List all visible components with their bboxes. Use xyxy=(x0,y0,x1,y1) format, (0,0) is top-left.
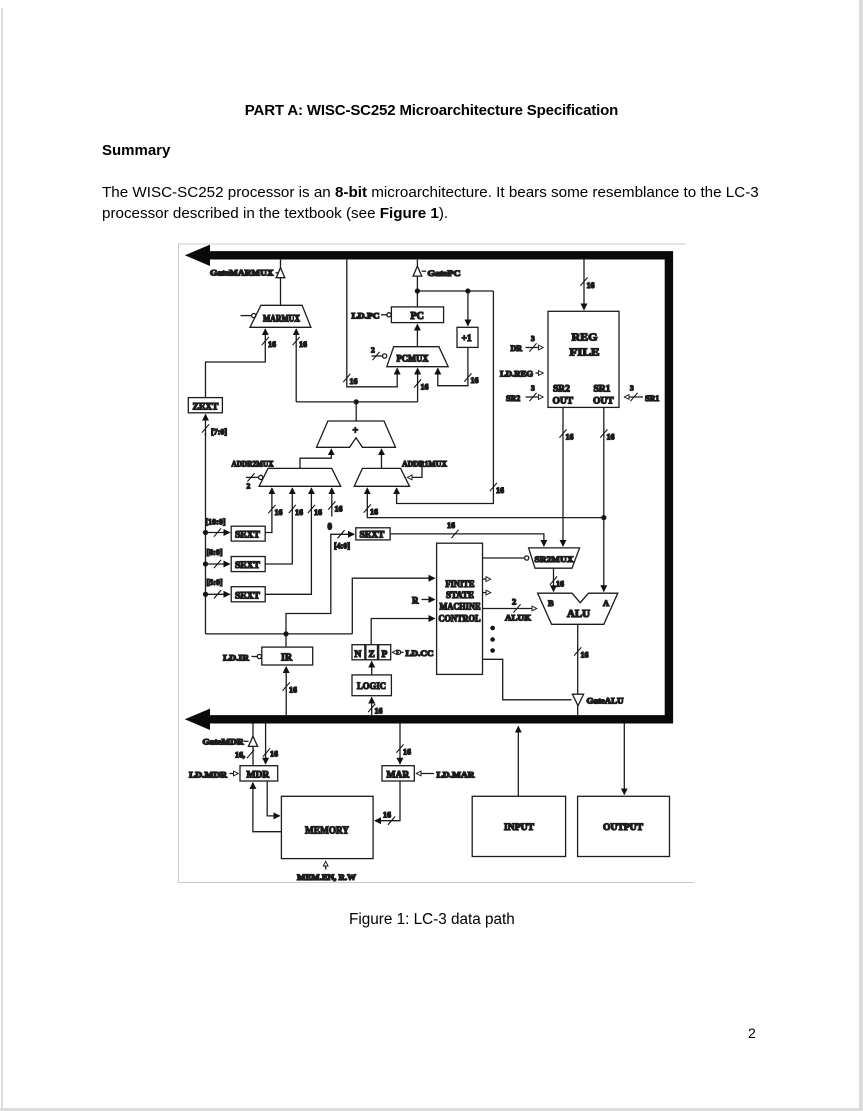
wire IR to FSM xyxy=(352,578,434,634)
svg-text:16: 16 xyxy=(556,580,564,589)
PCMUX select input (2) xyxy=(371,346,387,361)
svg-text:ALUK: ALUK xyxy=(505,614,532,623)
svg-text:MACHINE: MACHINE xyxy=(440,602,481,612)
mux ADDR2MUX xyxy=(232,459,341,486)
wire SEXT [5:0] to ADDR2MUX input 3 (16) xyxy=(265,488,322,594)
svg-text:16: 16 xyxy=(403,748,411,757)
wire junction to +1 xyxy=(467,291,469,326)
svg-text:SR2: SR2 xyxy=(506,394,520,403)
register PC xyxy=(391,307,443,323)
svg-text:3: 3 xyxy=(630,384,634,393)
svg-text:SEXT: SEXT xyxy=(235,591,260,601)
MEM.EN, R.W control xyxy=(297,862,356,882)
wire IR to SEXT [4:0] xyxy=(286,530,354,634)
svg-text:16: 16 xyxy=(275,508,283,517)
svg-text:R: R xyxy=(412,596,419,606)
svg-text:FINITE: FINITE xyxy=(446,579,475,589)
svg-text:2: 2 xyxy=(371,346,375,355)
svg-text:MDR: MDR xyxy=(247,771,270,781)
wire bus to PCMUX left input (16) xyxy=(343,260,397,387)
svg-text:GateMARMUX: GateMARMUX xyxy=(210,269,274,278)
wire SEXT [8:0] to ADDR2MUX input 2 (16) xyxy=(265,488,303,564)
wire MEMORY to MDR xyxy=(253,783,282,832)
wire SR2MUX output to ALU input B (16) xyxy=(550,568,564,591)
svg-text:0: 0 xyxy=(328,522,333,532)
wire SR2OUT to SR2MUX (16) xyxy=(559,407,573,546)
svg-text:16: 16 xyxy=(335,505,343,514)
svg-text:DR: DR xyxy=(511,344,523,353)
svg-text:SEXT: SEXT xyxy=(360,531,385,541)
svg-text:CONTROL: CONTROL xyxy=(439,614,481,624)
svg-text:OUT: OUT xyxy=(553,397,574,407)
svg-text:16: 16 xyxy=(587,281,595,290)
wire bus to REG FILE (16) xyxy=(580,260,594,310)
bus left arrowhead (bottom) xyxy=(185,709,210,730)
svg-text:STATE: STATE xyxy=(446,590,474,600)
wire SEXT [4:0] output to SR2MUX (16) xyxy=(390,521,544,546)
svg-text:N: N xyxy=(355,650,362,660)
svg-text:16: 16 xyxy=(496,486,504,495)
svg-text:16: 16 xyxy=(471,376,479,385)
LD.REG input xyxy=(500,370,543,379)
svg-text:16: 16 xyxy=(383,811,391,820)
svg-text:16,: 16, xyxy=(235,751,245,760)
wire INPUT to bus xyxy=(517,727,519,797)
svg-text:16: 16 xyxy=(421,383,429,392)
condition code boxes N Z P xyxy=(352,645,391,660)
mux PCMUX xyxy=(387,347,448,367)
wire PCMUX output to PC xyxy=(416,325,418,347)
LD.MAR control xyxy=(417,770,475,779)
FSM output stub 1 xyxy=(483,578,491,580)
wire bus to MAR (16) xyxy=(396,724,411,764)
input R to FSM xyxy=(412,596,435,606)
svg-text:16: 16 xyxy=(270,750,278,759)
wire bus to LOGIC (16) xyxy=(368,698,382,716)
wire LOGIC to NZP xyxy=(371,662,373,675)
mux MARMUX xyxy=(250,305,311,327)
svg-text:16: 16 xyxy=(607,433,615,442)
svg-text:LD.MAR: LD.MAR xyxy=(437,770,475,779)
gate GateALU (triangle + label) xyxy=(572,694,623,706)
SR1 select input (3) xyxy=(625,384,660,403)
svg-text:PCMUX: PCMUX xyxy=(397,354,429,364)
svg-text:2: 2 xyxy=(512,597,516,607)
svg-text:GateMDR: GateMDR xyxy=(203,737,244,746)
bus left arrowhead (top) xyxy=(185,245,210,266)
IR field vertical wire xyxy=(204,433,208,634)
svg-text:Z: Z xyxy=(369,650,375,660)
register MAR xyxy=(382,766,414,781)
wire tap to SEXT [5:0] xyxy=(206,590,230,598)
svg-text:[8:0]: [8:0] xyxy=(207,548,223,557)
wire bus to MDR (16) xyxy=(263,724,278,764)
svg-text:GatePC: GatePC xyxy=(428,269,461,278)
wire node to PCMUX middle input (16) xyxy=(414,369,429,402)
figure border frame xyxy=(179,244,701,883)
svg-text:16: 16 xyxy=(350,377,358,386)
register MDR xyxy=(240,766,278,781)
wire bus to IR (16) xyxy=(283,667,297,715)
svg-text:MEMORY: MEMORY xyxy=(305,826,349,837)
svg-text:SEXT: SEXT xyxy=(235,561,260,571)
svg-text:16: 16 xyxy=(268,340,276,349)
control unit FINITE STATE MACHINE CONTROL xyxy=(437,543,483,674)
wire ALU output to bus through GateALU (16) xyxy=(574,624,588,715)
LD.MDR control xyxy=(189,770,238,779)
wire PC output to GatePC junction and right branch xyxy=(415,289,493,293)
svg-text:SEXT: SEXT xyxy=(235,531,260,541)
mux SR2MUX xyxy=(529,548,580,568)
svg-text:ALU: ALU xyxy=(567,609,590,620)
wire ADDR2MUX output to adder xyxy=(300,449,331,468)
svg-text:OUTPUT: OUTPUT xyxy=(603,823,644,833)
FSM output dots xyxy=(490,626,495,653)
mux ADDR1MUX xyxy=(354,459,447,486)
wire bus to OUTPUT xyxy=(623,724,625,795)
wire MAR to MEMORY (16) xyxy=(375,781,400,825)
svg-text:16: 16 xyxy=(581,651,589,660)
svg-text:PC: PC xyxy=(411,311,424,322)
svg-text:16: 16 xyxy=(566,433,574,442)
box SEXT [4:0] xyxy=(334,528,390,551)
svg-text:INPUT: INPUT xyxy=(504,823,535,833)
box SEXT [8:0] xyxy=(207,548,266,572)
svg-text:ADDR1MUX: ADDR1MUX xyxy=(402,459,447,468)
svg-text:3: 3 xyxy=(531,334,535,343)
wire PC to ADDR1MUX right input (16) xyxy=(397,291,504,504)
wire IR output xyxy=(206,632,353,647)
svg-text:16: 16 xyxy=(314,508,322,517)
SR2 select input (3) xyxy=(506,384,543,403)
svg-text:[10:0]: [10:0] xyxy=(206,518,226,527)
box SEXT [10:0] xyxy=(206,518,266,542)
box LOGIC xyxy=(352,675,391,696)
bus (top bar, right bar, bottom bar) xyxy=(209,255,669,719)
svg-text:P: P xyxy=(382,650,388,660)
svg-text:LD.CC: LD.CC xyxy=(406,649,434,658)
svg-text:LD.PC: LD.PC xyxy=(352,311,380,320)
wire node to MARMUX right input (16) xyxy=(293,329,307,402)
device INPUT xyxy=(472,796,565,856)
gate GateMARMUX (triangle + label) xyxy=(210,260,285,305)
svg-text:SR2MUX: SR2MUX xyxy=(535,554,575,564)
wire +1 output to PCMUX right input (16) xyxy=(438,347,479,385)
svg-text:[7:0]: [7:0] xyxy=(211,428,227,437)
svg-text:MARMUX: MARMUX xyxy=(263,314,300,324)
svg-text:GateALU: GateALU xyxy=(587,697,624,706)
wire SR1OUT branch to ADDR1MUX left input (16) xyxy=(364,488,604,517)
incrementer +1 xyxy=(457,327,478,347)
LD.IR control xyxy=(223,653,262,662)
svg-text:MAR: MAR xyxy=(387,771,410,781)
svg-text:B: B xyxy=(548,598,554,608)
svg-text:16: 16 xyxy=(375,707,383,716)
LD.PC control xyxy=(352,311,392,320)
svg-text:FILE: FILE xyxy=(570,347,600,359)
gate GatePC (triangle + label) xyxy=(413,260,461,307)
svg-text:SR1: SR1 xyxy=(645,394,659,403)
DR input (3) xyxy=(511,334,544,353)
svg-text:A: A xyxy=(603,598,610,608)
svg-text:16: 16 xyxy=(447,521,455,530)
svg-text:SR1: SR1 xyxy=(594,385,611,395)
svg-text:16: 16 xyxy=(370,508,378,517)
svg-text:16: 16 xyxy=(289,686,297,695)
wire NZP to FSM xyxy=(371,619,434,645)
FSM output ALUK (2) xyxy=(483,597,537,623)
svg-text:IR: IR xyxy=(281,653,293,664)
wire SR1OUT to ALU input A (16) xyxy=(600,407,614,591)
svg-text:16: 16 xyxy=(299,340,307,349)
svg-text:MEM.EN, R.W: MEM.EN, R.W xyxy=(297,873,356,882)
constant 0 input to ADDR2MUX input 4 (16) xyxy=(328,488,343,531)
wire tap to SEXT [8:0] xyxy=(206,560,230,568)
wire tap to SEXT [10:0] xyxy=(206,528,230,536)
gate GateMDR (triangle + label) xyxy=(203,724,258,766)
svg-text:[5:0]: [5:0] xyxy=(207,578,223,587)
svg-text:LD.REG: LD.REG xyxy=(500,370,533,379)
svg-text:16: 16 xyxy=(295,508,303,517)
ADDR1MUX select input xyxy=(408,462,423,477)
wire ZEXT output to MARMUX left input (16) xyxy=(206,329,277,397)
FSM output to GateALU xyxy=(483,659,572,700)
svg-text:REG: REG xyxy=(572,332,598,344)
ADDR2MUX select input (2) xyxy=(246,473,263,490)
wire ADDR1MUX output to adder xyxy=(381,449,383,468)
MARMUX select input xyxy=(241,314,256,318)
svg-text:SR2: SR2 xyxy=(553,385,570,395)
register IR xyxy=(262,647,313,665)
box ZEXT xyxy=(188,398,222,413)
svg-text:LOGIC: LOGIC xyxy=(357,682,386,692)
svg-text:ZEXT: ZEXT xyxy=(193,402,220,412)
svg-text:ADDR2MUX: ADDR2MUX xyxy=(232,459,274,468)
wire adder output to MARMUX/PCMUX node xyxy=(296,400,417,421)
svg-text:+: + xyxy=(353,426,359,437)
FSM output to SR2MUX select xyxy=(483,556,529,560)
svg-text:LD.MDR: LD.MDR xyxy=(189,770,227,779)
svg-text:[4:0]: [4:0] xyxy=(334,542,350,551)
box SEXT [5:0] xyxy=(207,578,266,602)
adder (+) xyxy=(317,421,396,447)
wire MDR to MEMORY xyxy=(267,781,279,816)
ZEXT input [7:0] xyxy=(202,415,227,437)
register file REG FILE xyxy=(548,311,619,407)
LD.CC control xyxy=(393,649,434,658)
device OUTPUT xyxy=(578,796,670,856)
wire SEXT [10:0] to ADDR2MUX input 1 (16) xyxy=(265,488,282,532)
svg-text:OUT: OUT xyxy=(593,397,614,407)
memory MEMORY xyxy=(281,796,373,858)
svg-text:+1: +1 xyxy=(462,334,472,344)
svg-text:2: 2 xyxy=(247,482,251,491)
svg-text:LD.IR: LD.IR xyxy=(223,653,249,662)
ALU xyxy=(538,593,618,624)
FSM output stub 2 xyxy=(483,592,491,594)
svg-text:3: 3 xyxy=(531,384,535,393)
